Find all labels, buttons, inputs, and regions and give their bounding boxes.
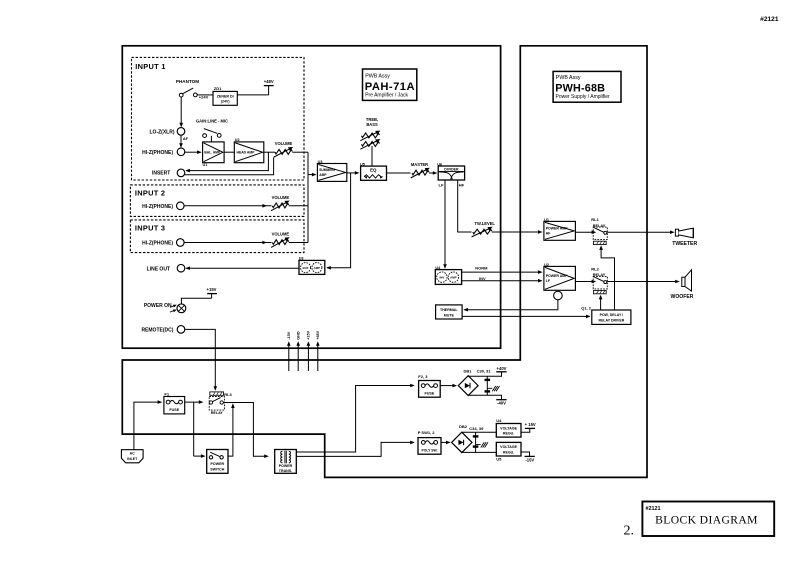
amplifier U2 POWER AMP LF: [544, 266, 576, 290]
wire power switch return: [228, 404, 233, 456]
svg-text:-40V: -40V: [497, 401, 506, 406]
wire HF to tw level: [458, 180, 472, 232]
op-amp U1 BAL. AMP: [203, 142, 225, 163]
svg-text:#2121: #2121: [760, 16, 779, 23]
svg-text:GAIN:LINE - MIC: GAIN:LINE - MIC: [196, 119, 228, 124]
wire HI-Z to BAL AMP: [185, 151, 201, 153]
potentiometer TREB: [362, 133, 380, 138]
svg-text:REMOTE(DC): REMOTE(DC): [141, 328, 173, 334]
svg-text:-15V: -15V: [287, 331, 291, 339]
wire RL2 to woofer: [607, 281, 678, 283]
svg-text:REGU.: REGU.: [503, 451, 514, 455]
ground at C30,31: [487, 387, 492, 389]
svg-text:VOLUME: VOLUME: [272, 232, 290, 237]
svg-text:INPUT 3: INPUT 3: [135, 223, 165, 232]
svg-text:PWB Assy: PWB Assy: [556, 75, 581, 81]
rectifier DB2: [452, 432, 472, 452]
wire BAL AMP to HEAD AMP: [224, 151, 234, 153]
wire volume3 out to bus: [289, 242, 308, 244]
switch GAIN: [203, 134, 207, 138]
potentiometer VOLUME input1: [275, 149, 292, 154]
wire secondary to P SW1,2: [296, 442, 413, 456]
transformer POWER TRANS box: [275, 450, 297, 474]
svg-text:BASS: BASS: [366, 122, 378, 127]
svg-text:AMP: AMP: [319, 173, 327, 177]
wire volume2 out to bus: [289, 205, 308, 207]
wire EQ to master: [387, 172, 411, 174]
net arrow +15V to preamp: [307, 344, 309, 372]
relay RL2 coil: [594, 290, 607, 293]
svg-text:VOLTAGE: VOLTAGE: [500, 445, 517, 449]
connector LINE OUT: [177, 264, 185, 272]
svg-text:GND: GND: [297, 331, 301, 340]
svg-text:POWER: POWER: [279, 464, 293, 468]
connector HI-Z(PHONE) input2: [177, 202, 185, 210]
wire power amp HF to RL1: [575, 231, 595, 233]
wire LO-Z to HI-Z: [180, 135, 182, 146]
PWB board outline PAH-71A (preamp board rectangle): [122, 46, 500, 348]
switch PHANTOM: [179, 93, 183, 97]
crossover U6 DIVIDER box: [438, 166, 464, 180]
svg-text:AC: AC: [130, 452, 136, 456]
svg-text:HEAD AMP: HEAD AMP: [237, 150, 256, 154]
svg-text:POLY SW.: POLY SW.: [421, 448, 437, 452]
svg-text:DIVIDER: DIVIDER: [444, 168, 459, 172]
power flag +15V rail: [525, 427, 535, 429]
svg-text:+15V: +15V: [207, 287, 217, 292]
switch POWER SWITCH box: [207, 450, 228, 474]
svg-text:VOLUME: VOLUME: [275, 141, 293, 146]
svg-text:C30, 31: C30, 31: [477, 369, 492, 374]
svg-text:LO-Z(XLR): LO-Z(XLR): [150, 130, 175, 136]
svg-text:DB1: DB1: [463, 369, 472, 374]
svg-text:INLET: INLET: [127, 457, 138, 461]
LED POWER ON lamp: [177, 304, 186, 313]
relay RL1 contact: [593, 227, 607, 240]
wire input2 to volume: [184, 205, 271, 207]
wire LF to inv amp: [444, 180, 446, 267]
wire F2,3 to DB1: [440, 385, 456, 387]
svg-text:PAH-71A: PAH-71A: [365, 81, 415, 93]
svg-text:Q1, 2: Q1, 2: [581, 305, 592, 310]
INPUT 2 dashed group box: [130, 185, 304, 217]
svg-text:+15V: +15V: [307, 330, 311, 339]
svg-text:TW.LEVEL: TW.LEVEL: [474, 221, 495, 226]
svg-text:AF: AF: [183, 137, 189, 141]
svg-text:POWER: POWER: [211, 462, 225, 466]
wire NORM to power amp LF: [462, 271, 542, 273]
wire DB2 positive rail: [462, 431, 497, 433]
connector REMOTE(DC): [177, 326, 185, 334]
wire U5 to -15V: [521, 452, 530, 456]
svg-text:#2121: #2121: [646, 506, 661, 512]
svg-text:BLOCK DIAGRAM: BLOCK DIAGRAM: [655, 514, 758, 527]
op-amp U2 HEAD AMP: [234, 142, 263, 163]
EQ U5 box: [361, 166, 387, 180]
potentiometer VOLUME input2: [272, 203, 288, 208]
svg-text:HI-Z(PHONE): HI-Z(PHONE): [142, 150, 173, 156]
potentiometer MASTER: [412, 170, 429, 175]
wire thermal sensor to thermal mute: [464, 300, 558, 310]
connector LO-Z(XLR): [177, 128, 185, 136]
connector INSERT: [177, 169, 185, 177]
svg-text:TRANS.: TRANS.: [279, 469, 292, 473]
svg-text:U4: U4: [496, 418, 502, 423]
wire summing out to buf amp: [327, 173, 351, 268]
svg-text:+ 15V: + 15V: [525, 422, 536, 427]
svg-text:NORM: NORM: [475, 266, 488, 271]
svg-text:VOLUME: VOLUME: [272, 195, 290, 200]
svg-text:WOOFER: WOOFER: [671, 294, 694, 300]
svg-text:VOLTAGE: VOLTAGE: [500, 426, 517, 430]
potentiometer TW.LEVEL: [473, 229, 492, 234]
svg-text:POW, DELAY /: POW, DELAY /: [600, 313, 624, 317]
relay RL3 coil: [210, 392, 224, 395]
relay RL3 contact: [209, 397, 224, 411]
svg-text:INPUT 2: INPUT 2: [135, 188, 165, 197]
title box BLOCK DIAGRAM: [642, 502, 774, 537]
poly switch P SW1,2 box: [418, 438, 441, 455]
fuse F2,3 box: [419, 381, 441, 398]
INPUT 1 dashed group box: [132, 57, 305, 180]
svg-text:BUF: BUF: [303, 266, 309, 270]
amplifier U1 POWER AMP HF: [544, 221, 576, 240]
svg-text:FUSE: FUSE: [424, 391, 434, 395]
connector HI-Z(PHONE) input1: [177, 148, 185, 156]
svg-text:SWITCH: SWITCH: [210, 468, 225, 472]
label box PAH-71A: [363, 69, 417, 100]
wire secondary to F2,3: [296, 386, 413, 453]
svg-text:HF: HF: [459, 183, 465, 188]
potentiometer BASS: [362, 142, 380, 147]
connector HI-Z(PHONE) input3: [177, 239, 185, 247]
svg-text:(24V): (24V): [221, 99, 231, 103]
svg-text:LINE OUT: LINE OUT: [147, 267, 170, 273]
wire AC inlet to fuse F1: [134, 402, 161, 450]
wire F1 tee to power switch: [193, 402, 195, 456]
fuse F1 box: [164, 397, 185, 414]
svg-text:INSERT: INSERT: [152, 171, 170, 177]
connector AC INLET: [121, 450, 143, 463]
svg-text:RELAY: RELAY: [211, 411, 224, 415]
svg-text:HI-Z(PHONE): HI-Z(PHONE): [142, 204, 173, 210]
INPUT 3 dashed group box: [130, 220, 304, 253]
svg-text:MUTE: MUTE: [444, 313, 455, 317]
svg-text:F2, 3: F2, 3: [418, 374, 428, 379]
wire master to divider: [429, 172, 436, 174]
regulator U5 VOLTAGE REGU box: [496, 442, 521, 456]
svg-text:-15V: -15V: [525, 458, 534, 463]
svg-text:RL1: RL1: [591, 217, 599, 222]
THERMAL MUTE box: [436, 305, 463, 319]
net arrow +48V to preamp: [317, 344, 319, 372]
svg-text:EQ: EQ: [370, 167, 377, 172]
wire DB1 positive rail to +40V: [468, 372, 501, 377]
svg-text:DB2: DB2: [459, 424, 468, 429]
power flag -40V: [496, 399, 506, 401]
wire insert send tap: [186, 152, 268, 170]
svg-text:FUSE: FUSE: [169, 408, 179, 412]
svg-text:+40V: +40V: [497, 366, 507, 371]
wire +15V to LED: [181, 298, 211, 304]
svg-text:AMP: AMP: [450, 275, 456, 279]
relay RL2 contact: [593, 276, 607, 289]
svg-text:MASTER: MASTER: [411, 162, 428, 167]
svg-text:RL2: RL2: [591, 267, 599, 272]
wire buf amp to line out: [186, 267, 299, 269]
wire power amp LF to RL2: [575, 281, 595, 283]
wire phantom to LO-Z jack: [180, 97, 182, 126]
wire RL3 to transformer: [223, 403, 267, 457]
power flag +48V: [268, 86, 270, 95]
svg-text:BAL. AMP: BAL. AMP: [204, 150, 221, 154]
svg-text:+48V: +48V: [316, 330, 320, 339]
wire U4 to +15V: [521, 428, 530, 432]
wire thermal mute to relay driver: [462, 315, 589, 317]
svg-text:LF: LF: [439, 183, 444, 188]
wire RL1 coil drive: [601, 247, 614, 310]
ground at C34,39: [476, 444, 481, 446]
thermal sensor on power amp LF: [554, 291, 563, 300]
svg-text:THERMAL: THERMAL: [440, 308, 458, 312]
wire bus to summing amp: [308, 174, 316, 176]
relay RL1 coil: [594, 241, 607, 244]
svg-text:U5: U5: [496, 457, 502, 462]
wire summing out to EQ: [347, 172, 358, 174]
svg-text:AMP: AMP: [314, 266, 320, 270]
wire F1 to RL3: [185, 401, 203, 403]
svg-text:TWEETER: TWEETER: [672, 241, 697, 247]
power flag +40V: [496, 371, 506, 373]
wire insert return from wiper: [185, 157, 274, 174]
power flag -15V rail: [525, 455, 535, 457]
svg-text:INV: INV: [439, 275, 444, 279]
svg-text:INV: INV: [479, 276, 486, 281]
speaker WOOFER: [682, 277, 685, 286]
svg-text:F1: F1: [164, 392, 169, 397]
svg-text:SUMMING: SUMMING: [319, 168, 335, 172]
wire mix bus vertical: [307, 152, 309, 242]
speaker TWEETER: [675, 229, 678, 236]
svg-text:Power Supply / Amplifier: Power Supply / Amplifier: [556, 94, 611, 100]
wire DB1 negative rail to -40V: [468, 395, 501, 399]
rectifier DB1: [458, 376, 478, 396]
wire tw level to power amp HF: [492, 231, 542, 233]
buffer U3 BUF AMP box: [299, 260, 325, 274]
wire P SW to DB2: [441, 441, 449, 443]
svg-text:POWER ON: POWER ON: [144, 303, 172, 309]
svg-text:PWH-68B: PWH-68B: [555, 83, 605, 95]
wire RL1 to tweeter: [607, 231, 673, 233]
svg-text:C34, 39: C34, 39: [469, 426, 484, 431]
wire RL2 coil drive: [600, 296, 602, 310]
svg-text:Pre Amplifier / Jack: Pre Amplifier / Jack: [365, 93, 408, 99]
net arrow -15V to preamp: [288, 344, 290, 372]
svg-text:ZD1: ZD1: [214, 86, 222, 91]
op-amp U3 SUMMING AMP: [317, 164, 346, 182]
svg-text:RELAY DRIVER: RELAY DRIVER: [599, 318, 625, 322]
wire HEAD AMP output: [264, 151, 275, 153]
wire phantom switch to ZD1: [197, 94, 213, 96]
svg-text:RL3: RL3: [224, 392, 232, 397]
svg-text:POWER AMP: POWER AMP: [546, 274, 569, 278]
svg-text:P SW1, 2: P SW1, 2: [418, 430, 436, 435]
regulator U4 VOLTAGE REGU box: [496, 424, 521, 438]
wire ZD1 to +48V: [237, 94, 268, 96]
wire input3 to volume: [184, 242, 271, 244]
label box PWH-68B: [553, 71, 621, 102]
svg-text:2.: 2.: [624, 523, 635, 538]
wire remote to RL3 coil: [185, 329, 216, 389]
svg-text:PHANTOM: PHANTOM: [176, 79, 199, 84]
net arrow GND to preamp: [297, 344, 299, 372]
svg-text:INPUT 1: INPUT 1: [135, 62, 165, 71]
svg-text:+48V: +48V: [264, 79, 274, 84]
wire DB2 negative rail: [462, 451, 497, 453]
wire volume1 out to bus: [292, 151, 308, 153]
svg-text:REGU.: REGU.: [503, 432, 514, 436]
wire INV to power amp LF: [462, 280, 542, 282]
PWB board outline PWH-68B (power supply/amplifier board polygon): [122, 46, 647, 478]
svg-text:PWB Assy: PWB Assy: [365, 74, 390, 80]
svg-text:HI-Z(PHONE): HI-Z(PHONE): [142, 241, 173, 247]
driver Q1,2 POW DELAY RELAY DRIVER box: [592, 310, 631, 324]
svg-text:U2: U2: [235, 138, 240, 142]
potentiometer VOLUME input3: [272, 240, 288, 245]
svg-text:POWER AMP: POWER AMP: [546, 227, 569, 231]
wire tone pots to EQ: [371, 146, 373, 166]
capacitors C30,31 string: [486, 376, 488, 395]
svg-text:U1: U1: [203, 163, 208, 167]
wire gain switch to BAL AMP: [210, 136, 212, 142]
phase splitter U4 INV AMP box: [435, 270, 461, 285]
svg-text:ZENER DI: ZENER DI: [217, 94, 234, 98]
zener ZD1 box: [213, 91, 237, 105]
capacitors C34,39 string: [475, 432, 477, 452]
